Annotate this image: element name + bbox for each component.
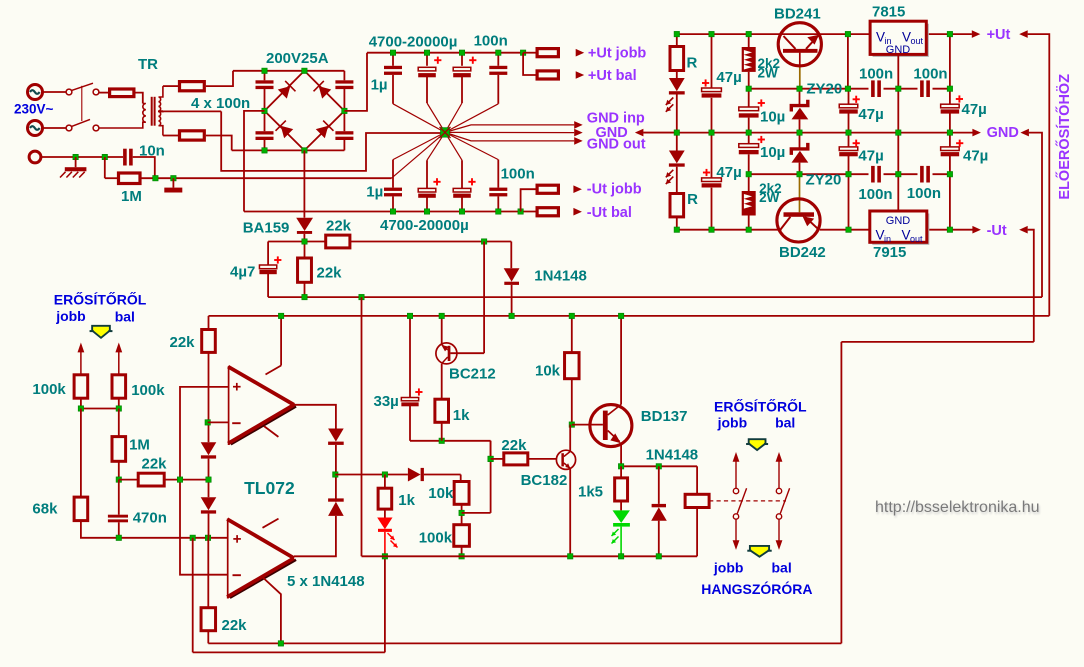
svg-text:R: R <box>687 191 698 208</box>
svg-text:BD137: BD137 <box>641 408 688 425</box>
svg-text:+Ut bal: +Ut bal <box>588 68 637 84</box>
svg-text:47µ: 47µ <box>716 164 741 181</box>
svg-text:GND out: GND out <box>587 137 646 153</box>
svg-text:ZY20: ZY20 <box>806 81 842 98</box>
svg-text:jobb: jobb <box>713 559 744 575</box>
svg-text:ERŐSÍTŐRŐL: ERŐSÍTŐRŐL <box>54 291 147 308</box>
svg-text:in: in <box>884 234 891 244</box>
svg-text:47µ: 47µ <box>716 69 741 86</box>
svg-text:1µ: 1µ <box>366 184 383 201</box>
svg-text:bal: bal <box>115 309 135 325</box>
svg-text:470n: 470n <box>133 510 167 527</box>
svg-text:2W: 2W <box>759 190 780 205</box>
svg-text:22k: 22k <box>326 217 352 234</box>
svg-text:22k: 22k <box>317 264 343 281</box>
svg-text:10k: 10k <box>428 485 454 502</box>
svg-text:BD242: BD242 <box>779 244 826 261</box>
svg-text:GND: GND <box>886 215 911 227</box>
svg-text:1N4148: 1N4148 <box>534 268 587 285</box>
svg-text:BC212: BC212 <box>449 366 496 383</box>
svg-text:1µ: 1µ <box>371 77 388 94</box>
svg-text:TR: TR <box>138 56 158 73</box>
svg-text:4700-20000µ: 4700-20000µ <box>380 217 469 234</box>
svg-text:jobb: jobb <box>55 308 86 324</box>
svg-text:+Ut jobb: +Ut jobb <box>588 46 647 62</box>
svg-text:100n: 100n <box>501 166 535 183</box>
svg-text:22k: 22k <box>170 334 196 351</box>
svg-text:4µ7: 4µ7 <box>230 263 255 280</box>
svg-text:1M: 1M <box>129 437 150 454</box>
svg-text:100n: 100n <box>474 33 508 50</box>
svg-text:47µ: 47µ <box>963 147 988 164</box>
svg-text:4 x 100n: 4 x 100n <box>191 95 250 112</box>
svg-text:BD241: BD241 <box>774 6 821 23</box>
svg-text:R: R <box>687 54 698 71</box>
svg-text:10k: 10k <box>535 363 561 380</box>
svg-text:100n: 100n <box>858 186 892 203</box>
svg-text:22k: 22k <box>501 437 527 454</box>
svg-text:ELŐERŐSÍTŐHÖZ: ELŐERŐSÍTŐHÖZ <box>1055 74 1073 200</box>
svg-text:ZY20: ZY20 <box>806 172 842 189</box>
svg-text:GND: GND <box>886 44 911 56</box>
svg-text:47µ: 47µ <box>962 101 987 118</box>
svg-text:TL072: TL072 <box>244 478 295 498</box>
svg-text:jobb: jobb <box>717 414 748 430</box>
svg-text:1k: 1k <box>453 407 470 424</box>
svg-text:230V~: 230V~ <box>14 102 54 117</box>
svg-text:2W: 2W <box>758 65 779 80</box>
svg-text:5 x 1N4148: 5 x 1N4148 <box>287 573 365 590</box>
svg-text:+Ut: +Ut <box>987 27 1011 43</box>
svg-text:BC182: BC182 <box>521 472 568 489</box>
svg-text:7815: 7815 <box>872 3 905 20</box>
svg-text:100k: 100k <box>419 530 453 547</box>
svg-text:HANGSZÓRÓRA: HANGSZÓRÓRA <box>701 580 812 597</box>
svg-text:bal: bal <box>772 559 792 575</box>
svg-text:4700-20000µ: 4700-20000µ <box>369 33 458 50</box>
svg-text:1M: 1M <box>121 188 142 205</box>
svg-text:10µ: 10µ <box>760 144 785 161</box>
svg-text:22k: 22k <box>222 617 248 634</box>
svg-text:100k: 100k <box>32 381 66 398</box>
svg-text:100n: 100n <box>907 185 941 202</box>
svg-text:-Ut jobb: -Ut jobb <box>587 181 642 197</box>
svg-text:7915: 7915 <box>873 244 906 261</box>
svg-text:1N4148: 1N4148 <box>646 446 699 463</box>
svg-text:BA159: BA159 <box>243 220 290 237</box>
svg-text:1k: 1k <box>398 492 415 509</box>
svg-text:1k5: 1k5 <box>578 484 603 501</box>
svg-text:100n: 100n <box>913 66 947 83</box>
svg-text:100n: 100n <box>859 66 893 83</box>
svg-text:68k: 68k <box>32 500 58 517</box>
svg-text:out: out <box>910 234 923 244</box>
svg-text:ERŐSÍTŐRŐL: ERŐSÍTŐRŐL <box>714 398 807 415</box>
svg-text:bal: bal <box>775 414 795 430</box>
svg-text:GND: GND <box>987 125 1019 141</box>
svg-text:10µ: 10µ <box>760 108 785 125</box>
svg-text:22k: 22k <box>142 456 168 473</box>
svg-text:-Ut: -Ut <box>987 223 1007 239</box>
svg-text:33µ: 33µ <box>374 393 399 410</box>
svg-text:out: out <box>911 36 924 46</box>
svg-text:47µ: 47µ <box>858 148 883 165</box>
svg-text:100k: 100k <box>131 382 165 399</box>
svg-text:http://bsselektronika.hu: http://bsselektronika.hu <box>875 499 1040 516</box>
svg-text:47µ: 47µ <box>858 106 883 123</box>
svg-text:200V25A: 200V25A <box>266 50 329 67</box>
svg-text:-Ut bal: -Ut bal <box>587 205 632 221</box>
